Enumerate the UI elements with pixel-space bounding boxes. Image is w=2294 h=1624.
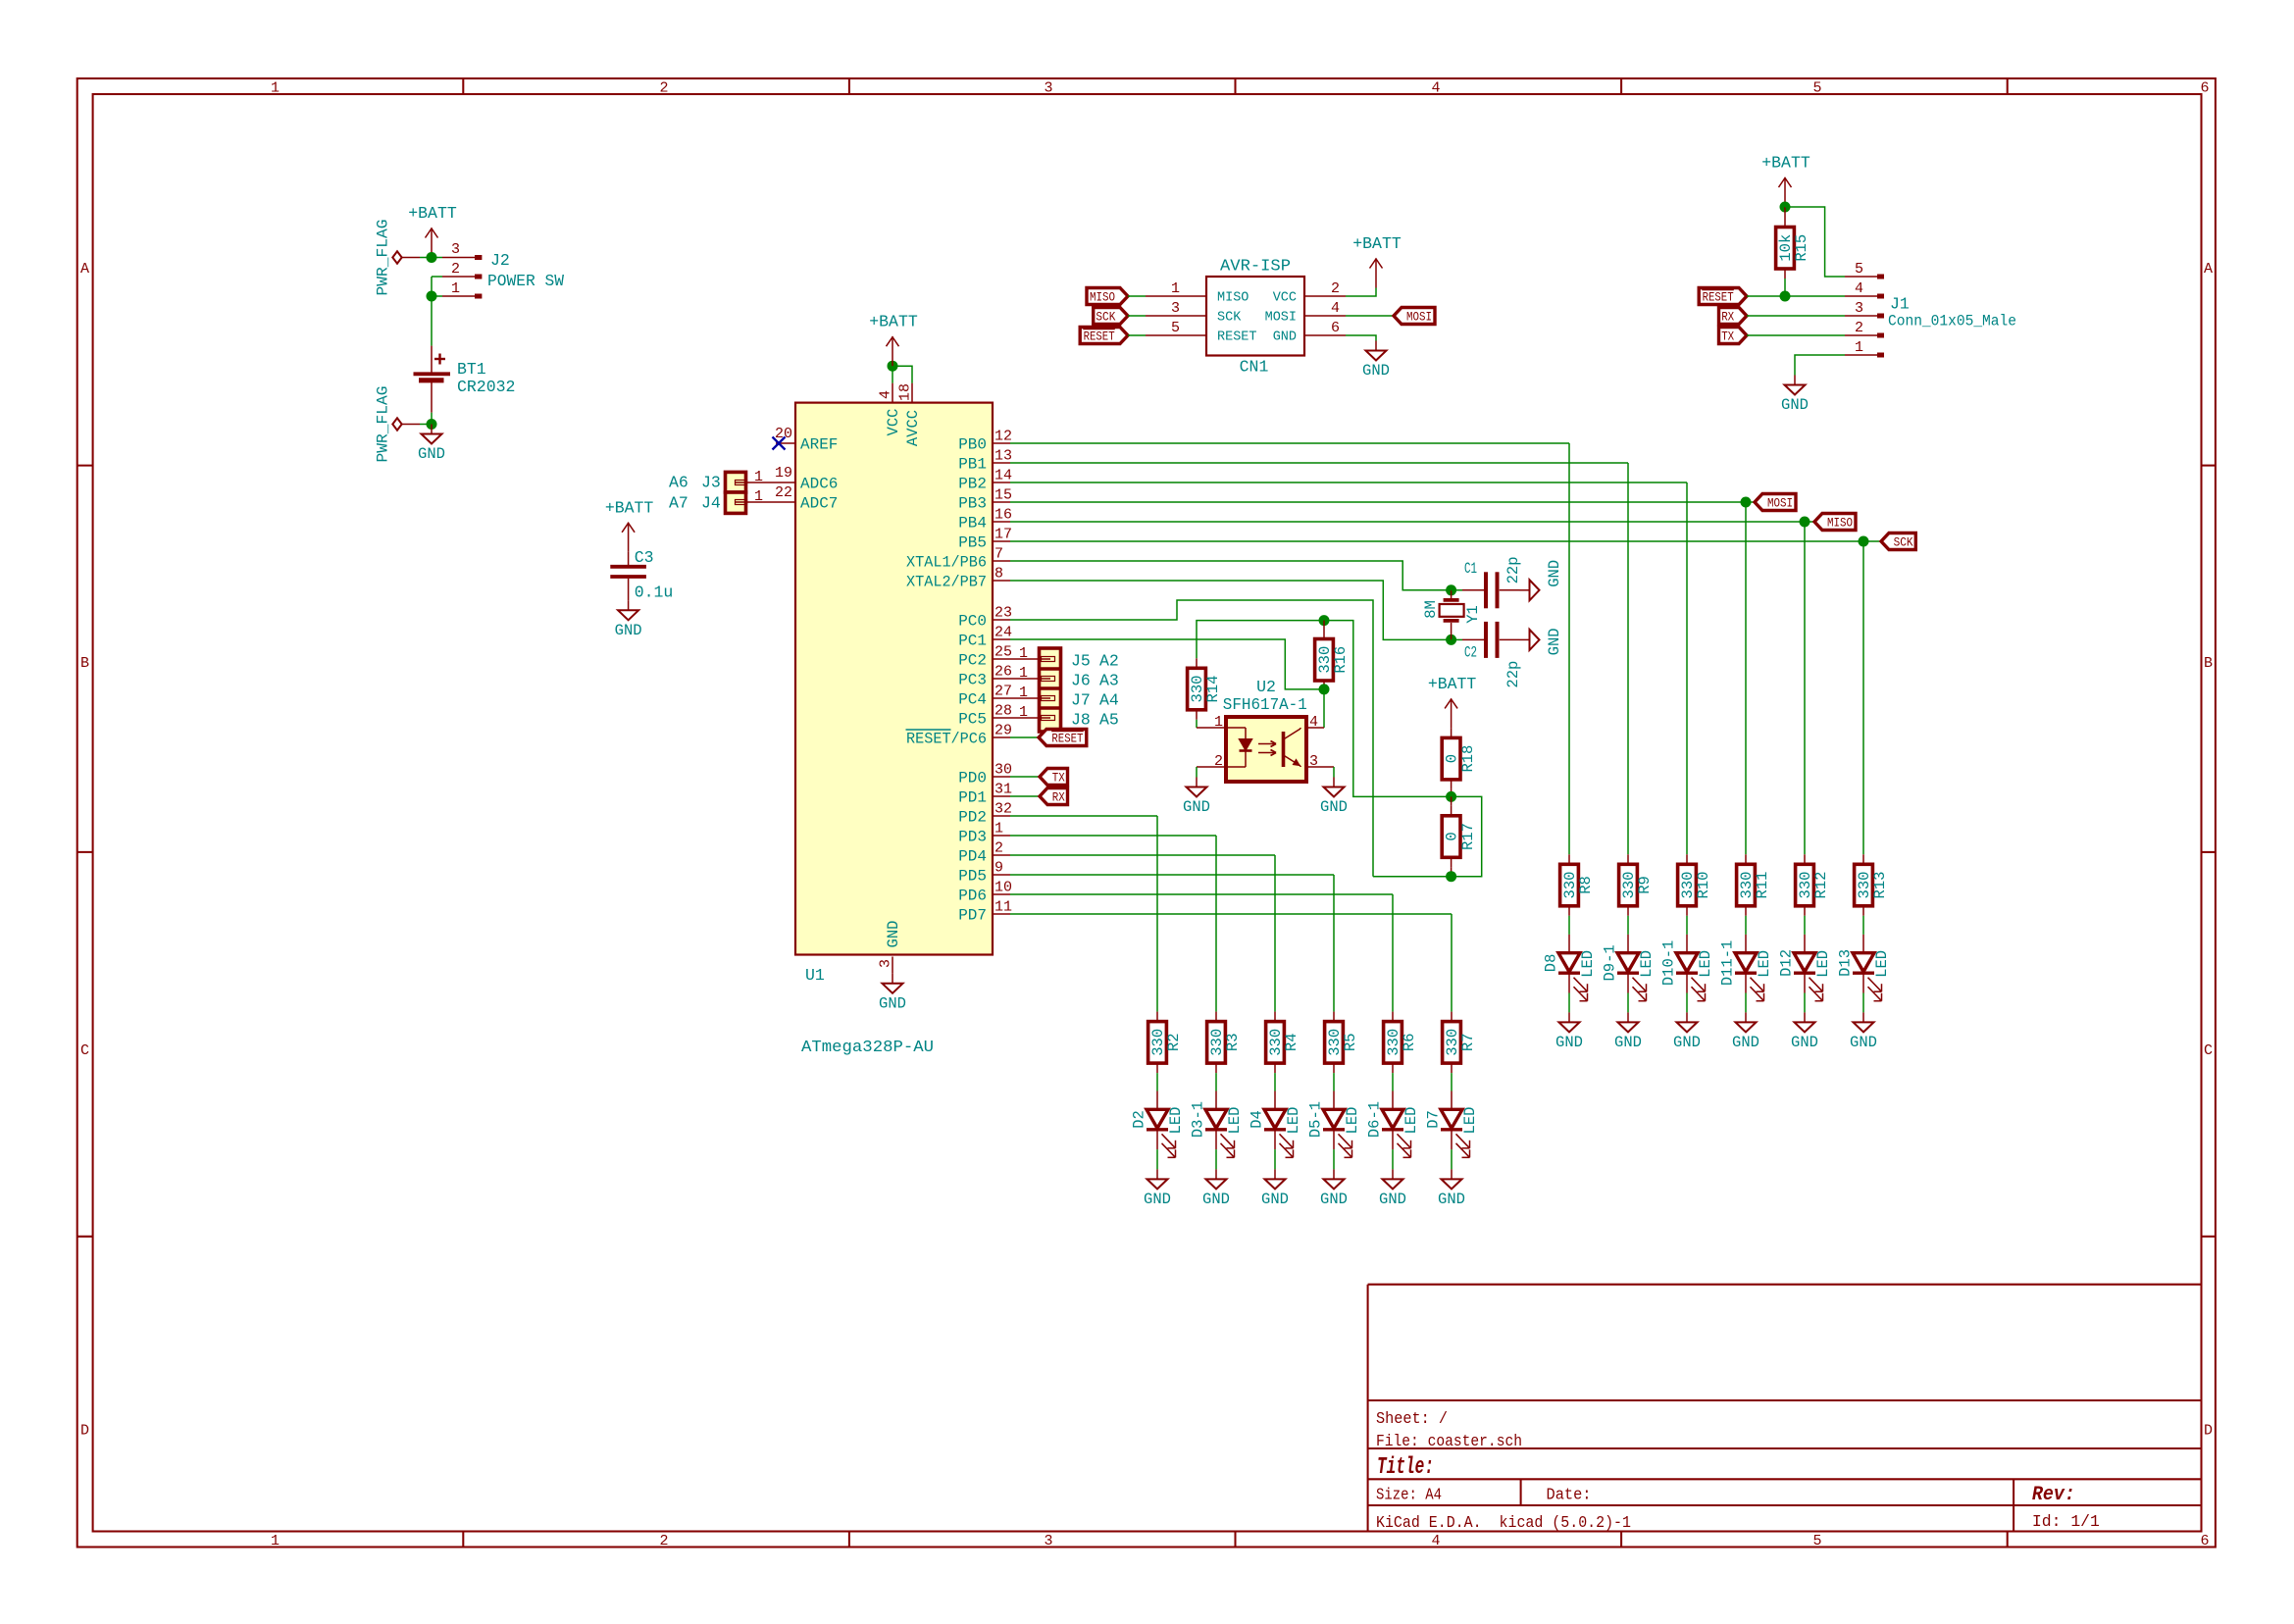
svg-text:8M: 8M [1422,600,1440,619]
junction R18 bottom / R17 top [1446,791,1456,802]
frame column tick top 2 [848,78,850,94]
svg-text:GND: GND [1320,1191,1348,1208]
svg-text:4: 4 [1309,714,1318,731]
global label RESET (CN1) [1080,328,1128,344]
svg-text:2: 2 [994,840,1003,857]
svg-text:5: 5 [1855,261,1863,278]
svg-text:LED: LED [1814,950,1832,978]
U1 pin 26 PC3 [993,678,1010,680]
U2 pin 3 [1306,766,1334,768]
svg-text:10k: 10k [1777,234,1795,262]
CN1 pin 2 VCC [1304,295,1346,297]
wire D7 to ground [1451,1149,1453,1169]
svg-text:GND: GND [1261,1191,1289,1208]
svg-text:+BATT: +BATT [605,498,654,517]
global label TX (U1 PD0) [1040,769,1068,786]
svg-text:PC4: PC4 [958,691,987,709]
ground below D5-1 [1320,1169,1348,1208]
wire PB2 horizontal [1010,482,1687,483]
U1 pin 24 PC1 [993,638,1010,640]
resistor R5 330 [1325,1012,1360,1074]
ground below D10-1 [1673,1012,1701,1051]
wire RX tag to J1 pin3 [1747,315,1845,317]
svg-text:LED: LED [1167,1107,1185,1135]
svg-text:LED: LED [1285,1107,1302,1135]
svg-text:2: 2 [1855,320,1863,336]
svg-text:32: 32 [994,801,1012,818]
global label MOSI (PB bus) [1755,494,1796,511]
svg-text:D3-1: D3-1 [1189,1101,1206,1138]
svg-text:R8: R8 [1577,876,1595,894]
U1 pin 28 PC5 [993,717,1010,719]
wire D3-1 to ground [1215,1149,1217,1169]
ground below J1 [1781,376,1809,415]
ground below D13 [1850,1012,1877,1051]
svg-text:R11: R11 [1754,872,1771,899]
svg-text:GND: GND [1546,628,1563,655]
LED D7 [1424,1091,1479,1158]
svg-text:R14: R14 [1204,676,1222,703]
global label SCK (PB bus) [1881,533,1915,550]
frame row tick left 3 [77,1236,93,1238]
wire PB1 horizontal [1010,462,1628,464]
U1 pin 3 GND [892,957,893,974]
svg-text:1: 1 [1019,665,1028,682]
connector J5-J8 body [1040,648,1061,732]
svg-text:GND: GND [1614,1034,1642,1051]
resistor R11 330 [1737,854,1772,916]
svg-text:PD6: PD6 [958,888,987,905]
resistor R4 330 [1266,1012,1301,1074]
junction +BATT / J2 pin3 [427,252,437,263]
svg-text:R7: R7 [1459,1033,1477,1051]
wire PB2 vertical to resistor [1686,482,1688,854]
svg-text:Size: A4: Size: A4 [1376,1487,1442,1505]
svg-text:Y1: Y1 [1464,605,1482,624]
svg-text:A4: A4 [1099,691,1119,710]
svg-text:29: 29 [994,723,1012,739]
svg-text:330: 330 [1679,872,1697,899]
connector J3 (A6) body [726,472,746,492]
svg-text:A2: A2 [1099,652,1119,671]
svg-text:U1: U1 [805,966,825,985]
resistor R14 330 [1188,658,1223,720]
wire D4 to ground [1274,1149,1276,1169]
svg-text:PC3: PC3 [958,672,987,689]
global label MISO (PB bus) [1814,514,1856,531]
global label SCK (CN1) [1094,308,1128,325]
svg-text:PD2: PD2 [958,809,987,827]
svg-text:12: 12 [994,429,1012,445]
svg-text:J3: J3 [701,474,721,492]
svg-text:C: C [2204,1042,2213,1059]
svg-text:R16: R16 [1332,646,1350,674]
wire J1 pin1 to GND [1795,355,1845,376]
svg-text:D6-1: D6-1 [1365,1101,1383,1138]
svg-text:PB4: PB4 [958,515,987,533]
svg-text:26: 26 [994,664,1012,681]
+BATT power symbol (battery area) [408,204,457,258]
frame column tick bottom 2 [848,1532,850,1548]
svg-text:A5: A5 [1099,711,1119,730]
svg-text:330: 330 [1267,1029,1285,1056]
svg-text:+BATT: +BATT [408,204,457,223]
junction J2 pin1 / pin2 / battery [427,291,437,302]
svg-text:GND: GND [1320,798,1348,816]
svg-text:R10: R10 [1695,872,1712,899]
R17 top pin link [1451,796,1453,805]
junction battery- / PWR_FLAG / GND [427,419,437,430]
svg-text:MISO: MISO [1090,289,1115,304]
wire R14 bottom to U2 pin1 [1196,720,1198,728]
svg-text:B: B [80,655,89,672]
svg-text:1: 1 [994,821,1003,837]
global label MISO (CN1) [1087,288,1128,305]
resistor R2 330 [1148,1012,1184,1074]
svg-text:4: 4 [1431,1533,1440,1549]
svg-text:13: 13 [994,448,1012,465]
svg-text:J2: J2 [490,251,510,270]
LED D4 [1248,1091,1302,1158]
svg-text:330: 330 [1856,872,1873,899]
svg-text:+BATT: +BATT [869,313,918,331]
wire AVCC up and over to junction [892,366,912,382]
U1 pin 20 AREF [776,442,795,444]
wire PD4 vertical to R4 [1274,855,1276,1012]
frame column tick top 3 [1234,78,1236,94]
svg-text:BT1: BT1 [457,360,486,379]
svg-text:14: 14 [994,468,1012,484]
frame column tick bottom 4 [1620,1532,1622,1548]
svg-text:D4: D4 [1248,1110,1265,1129]
svg-text:ADC7: ADC7 [800,495,838,513]
wire D11-1 to ground [1745,993,1747,1013]
svg-text:C1: C1 [1464,560,1477,578]
svg-text:25: 25 [994,644,1012,661]
svg-text:GND: GND [879,994,906,1012]
wire RESET/PC6 to tag [1010,736,1039,738]
svg-text:R5: R5 [1342,1033,1359,1051]
svg-text:31: 31 [994,782,1012,798]
resistor R9 330 [1619,854,1655,916]
svg-text:4: 4 [1331,300,1340,317]
junction R17 bottom / PC0 net [1446,871,1456,882]
svg-text:D9-1: D9-1 [1601,944,1618,981]
svg-text:J4: J4 [701,494,721,513]
wire R4 to D4 [1274,1073,1276,1091]
svg-text:330: 330 [1561,872,1579,899]
U1 pin 16 PB4 [993,521,1010,523]
wire PB3 vertical to resistor [1745,502,1747,854]
wire PB3 to MOSI tag [1746,501,1755,503]
svg-text:2: 2 [1331,280,1340,297]
svg-text:PD0: PD0 [958,770,987,787]
U1 pin 23 PC0 [993,619,1010,621]
svg-text:D: D [2204,1423,2213,1440]
junction crystal top / C1 [1446,584,1456,595]
wire junction down to U2 pin4 [1323,689,1325,728]
ground right of C2 [1520,628,1563,655]
svg-text:8: 8 [994,566,1003,583]
svg-text:22p: 22p [1504,556,1522,584]
connector J5 pin line [1010,657,1055,662]
junction PB4 / MISO tag [1800,517,1810,528]
wire PB1 vertical to resistor [1627,463,1629,854]
U2 internal phototransistor [1284,728,1301,767]
wire D8 to ground [1568,993,1570,1013]
svg-text:J8: J8 [1071,711,1091,730]
svg-text:GND: GND [1202,1191,1230,1208]
PWR_FLAG 2 (bottom) [374,386,401,463]
svg-text:GND: GND [615,622,642,639]
frame row tick left 2 [77,851,93,853]
frame row tick right 1 [2202,465,2216,467]
wire PD3 horizontal [1010,835,1216,837]
svg-text:3: 3 [1044,1533,1052,1549]
R15 top pin link [1784,207,1786,218]
svg-text:J1: J1 [1890,295,1910,314]
svg-text:330: 330 [1385,1029,1402,1056]
resistor R3 330 [1207,1012,1243,1074]
svg-text:TX: TX [1721,329,1734,343]
LED D12 [1777,935,1832,1001]
svg-text:330: 330 [1316,646,1334,674]
svg-text:+BATT: +BATT [1352,234,1402,253]
U1 pin 4 VCC [892,383,893,403]
svg-text:GND: GND [1183,798,1210,816]
svg-text:MISO: MISO [1827,515,1853,530]
svg-text:5: 5 [1812,80,1821,97]
U1 pin 11 PD7 [993,913,1010,915]
junction PB5 / SCK tag [1859,536,1869,547]
ground below D6-1 [1379,1169,1406,1208]
svg-text:6: 6 [1331,320,1340,336]
svg-text:POWER SW: POWER SW [487,272,564,290]
svg-text:+BATT: +BATT [1428,675,1477,693]
svg-text:R3: R3 [1224,1033,1242,1051]
ground below C3 [615,600,642,639]
U1 pin 18 AVCC [911,383,913,403]
svg-text:MISO: MISO [1217,291,1249,306]
global label RESET (J1) [1699,288,1747,305]
wire +BATT over and down to J1 pin5 [1785,207,1845,277]
LED D5-1 [1306,1091,1361,1158]
svg-text:B: B [2204,655,2213,672]
U1 pin 17 PB5 [993,540,1010,542]
wire PB5 vertical to resistor [1862,541,1864,854]
svg-text:RESET: RESET [1084,329,1115,343]
svg-text:PD5: PD5 [958,868,987,886]
wire R6 to D6-1 [1392,1073,1394,1091]
svg-text:5: 5 [1171,320,1180,336]
svg-text:330: 330 [1738,872,1756,899]
U1 pin 13 PB1 [993,462,1010,464]
wire R16 top junction to R18 bottom [1324,621,1452,797]
connector J1 pin 3 [1845,315,1884,317]
svg-text:PB3: PB3 [958,495,987,513]
svg-text:7: 7 [994,546,1003,563]
svg-text:RESET: RESET [1703,289,1734,304]
wire PB5 horizontal [1010,540,1863,542]
wire PD7 horizontal [1010,913,1452,915]
+BATT power symbol (J1) [1761,154,1810,208]
svg-text:24: 24 [994,625,1012,641]
svg-text:SCK: SCK [1096,309,1115,324]
wire D6-1 to ground [1392,1149,1394,1169]
svg-text:Conn_01x05_Male: Conn_01x05_Male [1888,313,2016,330]
wire R13 to D13 [1862,916,1864,935]
wire D2 to ground [1156,1149,1158,1169]
frame column tick bottom 3 [1234,1532,1236,1548]
svg-text:3: 3 [1855,300,1863,317]
svg-text:GND: GND [1791,1034,1818,1051]
svg-text:CN1: CN1 [1240,358,1269,377]
svg-text:R17: R17 [1459,823,1477,850]
wire R18 bottom stub [1451,789,1453,797]
wire PB0 horizontal [1010,442,1569,444]
svg-text:GND: GND [1362,362,1390,380]
LED D11-1 [1718,935,1773,1001]
svg-text:SFH617A-1: SFH617A-1 [1223,695,1307,714]
U2 pin 4 [1306,727,1324,729]
svg-text:R4: R4 [1283,1033,1300,1051]
U1 pin 10 PD6 [993,893,1010,895]
svg-text:MOSI: MOSI [1406,309,1432,324]
connector cell divider above J7 [1040,686,1061,690]
frame row tick right 2 [2202,851,2216,853]
+BATT power symbol (CN1) [1352,234,1402,288]
wire bypass loop around R17 [1452,796,1482,876]
svg-text:330: 330 [1189,676,1206,703]
svg-text:0: 0 [1444,832,1461,840]
svg-text:GND: GND [1781,396,1809,414]
svg-text:ADC6: ADC6 [800,476,838,493]
wire PD6 vertical to R6 [1392,894,1394,1012]
ground below U1 [879,974,906,1013]
wire PC0 net to R17 bottom junction [1373,876,1452,878]
svg-text:11: 11 [994,899,1012,916]
connector J6 pin line [1010,677,1055,682]
wire D12 to ground [1804,993,1806,1013]
+BATT power symbol (C3) [605,498,654,552]
connector cell divider above J8 [1040,706,1061,710]
svg-text:A3: A3 [1099,672,1119,690]
battery BT1 CR2032 [414,346,451,413]
svg-text:LED: LED [1226,1107,1244,1135]
svg-text:VCC: VCC [885,409,902,436]
svg-text:2: 2 [451,261,460,278]
wire R8 to D8 [1568,916,1570,935]
svg-text:SCK: SCK [1894,534,1913,549]
svg-text:5: 5 [1812,1533,1821,1549]
global label MOSI (CN1) [1394,308,1435,325]
svg-text:LED: LED [1461,1107,1479,1135]
wire RESET tag to CN1 pin5 [1128,334,1146,336]
svg-text:1: 1 [1019,685,1028,701]
svg-text:KiCad E.D.A. kicad (5.0.2)-1: KiCad E.D.A. kicad (5.0.2)-1 [1376,1514,1631,1533]
CN1 pin 3 SCK [1146,315,1206,317]
svg-text:A: A [80,261,89,278]
wire R17 bottom stub [1451,867,1453,876]
resistor R10 330 [1678,854,1713,916]
svg-text:1: 1 [1855,339,1863,356]
frame column tick top 5 [2007,78,2009,94]
svg-text:PB0: PB0 [958,436,987,454]
svg-text:R18: R18 [1459,745,1477,773]
svg-text:AVCC: AVCC [904,410,922,446]
connector J1 pin 4 [1845,295,1884,297]
svg-text:PC1: PC1 [958,633,987,650]
svg-text:D12: D12 [1777,949,1795,977]
svg-text:MOSI: MOSI [1265,311,1297,326]
svg-text:1: 1 [1171,280,1180,297]
svg-text:LED: LED [1756,950,1773,978]
svg-text:LED: LED [1344,1107,1361,1135]
capacitor C1 22p [1452,572,1520,608]
svg-text:A7: A7 [669,494,688,513]
svg-text:A: A [2204,261,2213,278]
frame column tick top 1 [462,78,464,94]
global label RESET (U1) [1039,730,1087,746]
junction crystal bottom / C2 [1446,634,1456,645]
LED D3-1 [1189,1091,1244,1158]
connector J8 pin line [1010,716,1055,721]
+BATT power symbol (R18) [1428,675,1477,729]
wire PB3 horizontal [1010,501,1746,503]
svg-text:2: 2 [659,1533,668,1549]
wire XTAL1/PB6 to crystal [1010,561,1452,590]
wire PD7 vertical to R7 [1451,914,1453,1012]
svg-text:GND: GND [1546,560,1563,587]
U1 pin 9 PD5 [993,874,1010,876]
U1 pin 32 PD2 [993,815,1010,817]
wire CN1 GND down [1346,335,1376,341]
svg-text:3: 3 [451,241,460,258]
no-connect cross at AREF [773,437,786,450]
resistor R18 0 [1442,728,1477,789]
svg-text:GND: GND [418,445,445,463]
svg-text:3: 3 [878,959,894,968]
ground below D12 [1791,1012,1818,1051]
svg-text:GND: GND [885,921,902,948]
svg-text:0.1u: 0.1u [635,584,674,602]
CN1 pin 5 RESET [1146,334,1206,336]
frame column tick bottom 5 [2007,1532,2009,1548]
svg-text:+BATT: +BATT [1761,154,1810,173]
wire VCC up to junction [892,366,893,382]
svg-text:9: 9 [994,860,1003,877]
svg-text:RESET: RESET [1217,330,1257,345]
frame row tick right 3 [2202,1236,2216,1238]
svg-text:J7: J7 [1071,691,1091,710]
wire PB5 to SCK tag [1863,540,1881,542]
U1 pin 12 PB0 [993,442,1010,444]
U1 pin 25 PC2 [993,658,1010,660]
wire TX tag to J1 pin2 [1747,334,1845,336]
svg-text:330: 330 [1797,872,1814,899]
wire R14 top to R16 top junction [1197,621,1324,659]
svg-text:30: 30 [994,762,1012,779]
svg-text:0: 0 [1444,754,1461,763]
junction PB3 / MOSI tag [1741,497,1752,508]
svg-text:LED: LED [1873,950,1891,978]
svg-text:CR2032: CR2032 [457,378,515,396]
connector CN1 AVR-ISP body [1206,277,1304,356]
wire PD0 to TX tag [1010,776,1040,778]
U1 pin 14 PB2 [993,482,1010,483]
svg-text:MOSI: MOSI [1767,495,1793,510]
svg-text:RESET/PC6: RESET/PC6 [906,731,987,748]
